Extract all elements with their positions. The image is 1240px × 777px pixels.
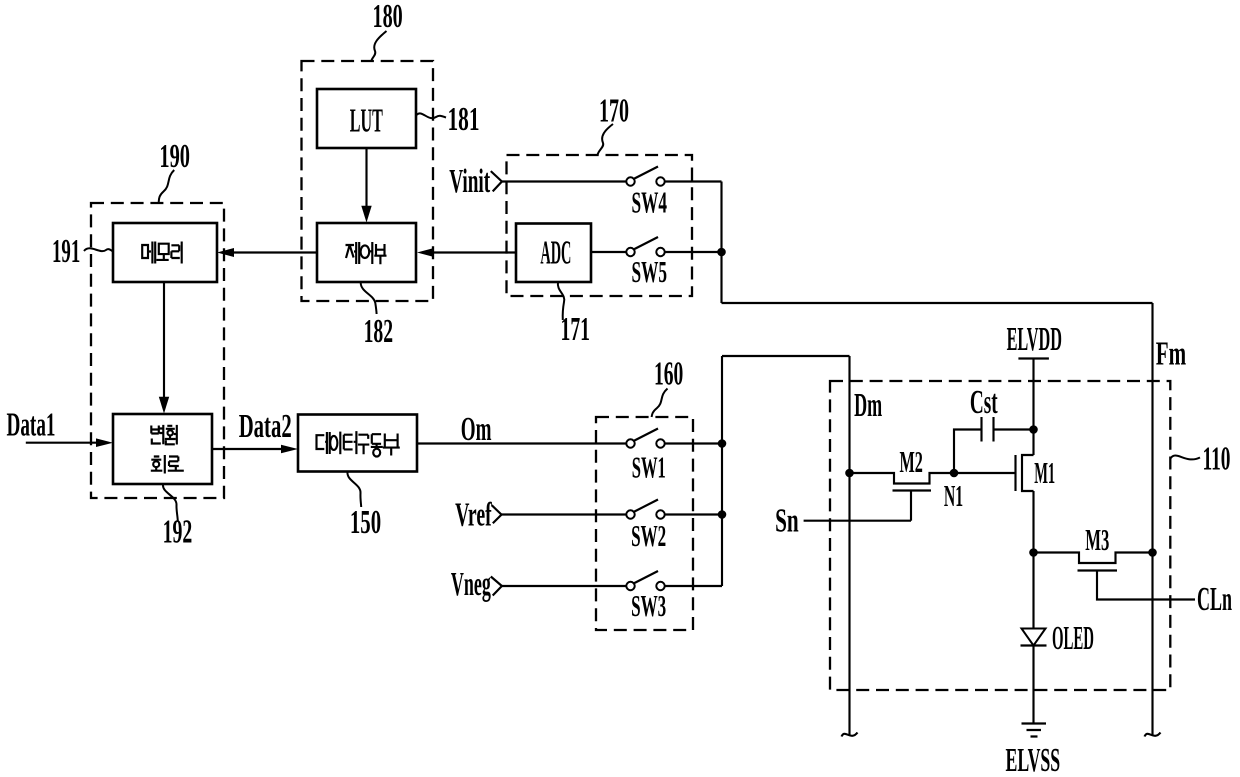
svg-text:ELVSS: ELVSS bbox=[1006, 742, 1061, 777]
box converter 변환회로 (U192) bbox=[113, 414, 212, 484]
svg-text:Data2: Data2 bbox=[239, 408, 292, 445]
block 190 dashed box bbox=[91, 203, 224, 498]
wire SW2 to bus bbox=[665, 513, 722, 515]
svg-text:M3: M3 bbox=[1085, 522, 1109, 557]
svg-text:OLED: OLED bbox=[1052, 620, 1094, 657]
svg-text:Sn: Sn bbox=[775, 503, 799, 540]
wire M2 gate to Sn bbox=[910, 491, 912, 521]
svg-text:ELVDD: ELVDD bbox=[1007, 321, 1062, 358]
node M1-M3-OLED junction dot bbox=[1029, 548, 1038, 557]
svg-text:SW4: SW4 bbox=[632, 185, 668, 220]
node SW2 junction dot bbox=[718, 510, 727, 519]
korean text 회로 bbox=[151, 455, 184, 474]
wire top horizontal run to Fm bbox=[722, 302, 1153, 304]
switch SW5 bbox=[626, 237, 664, 256]
svg-text:180: 180 bbox=[373, 0, 403, 35]
wire ADC to SW5 bbox=[591, 251, 626, 253]
transistor M3 channel bbox=[1034, 553, 1153, 564]
svg-text:190: 190 bbox=[159, 138, 190, 175]
ground symbol ELVSS bbox=[1022, 724, 1047, 737]
switch SW2 bbox=[626, 500, 664, 519]
wire SW4 to Fm riser bbox=[665, 180, 722, 182]
box controller 제어부 (U182) bbox=[317, 223, 416, 282]
svg-text:192: 192 bbox=[163, 514, 193, 551]
wire ELVDD down to Cst node bbox=[1032, 359, 1034, 456]
switch SW1 bbox=[626, 429, 664, 448]
wire Data1 input bbox=[26, 442, 97, 444]
wire OLED anode bbox=[1032, 553, 1034, 629]
svg-text:171: 171 bbox=[561, 311, 591, 348]
node N1 junction dot bbox=[950, 469, 959, 478]
node SW5 junction dot bbox=[717, 248, 726, 257]
transistor M2 channel bbox=[850, 473, 955, 484]
leader squiggle 160 bbox=[652, 389, 668, 418]
wire bus to Dm bbox=[722, 355, 850, 357]
box memory 메모리 (U191) bbox=[113, 223, 217, 282]
transistor M2 gate bar bbox=[893, 489, 932, 491]
svg-text:SW1: SW1 bbox=[632, 450, 666, 485]
svg-text:Data1: Data1 bbox=[7, 407, 56, 444]
block 180 dashed box bbox=[302, 61, 434, 301]
arrowhead into memory bbox=[217, 248, 234, 257]
wire SW5 to Fm riser bbox=[665, 251, 722, 253]
transistor M1 gate bar bbox=[1014, 455, 1016, 491]
svg-text:SW3: SW3 bbox=[631, 588, 666, 623]
arrowhead into controller from ADC bbox=[417, 248, 434, 257]
wire Om from data driver to SW1 bbox=[417, 442, 626, 444]
svg-text:Dm: Dm bbox=[854, 387, 882, 424]
leader tilde 181 bbox=[417, 113, 447, 118]
svg-text:ADC: ADC bbox=[540, 235, 571, 272]
arrowhead into converter bbox=[159, 397, 169, 414]
svg-text:Vref: Vref bbox=[455, 497, 492, 534]
svg-text:191: 191 bbox=[52, 233, 80, 270]
arrowhead Data2 into data driver bbox=[281, 445, 298, 454]
svg-text:110: 110 bbox=[1203, 440, 1231, 477]
wire Vinit to SW4 bbox=[502, 180, 626, 182]
svg-text:SW5: SW5 bbox=[632, 254, 668, 289]
svg-text:N1: N1 bbox=[944, 478, 963, 513]
node SW1 junction dot bbox=[718, 439, 727, 448]
node Cst junction dot bbox=[1029, 425, 1038, 434]
wire OLED cathode down bbox=[1032, 646, 1034, 724]
wire LUT to controller arrow bbox=[365, 148, 367, 207]
wire Vref to SW2 bbox=[502, 513, 627, 515]
wire Vneg to SW3 bbox=[502, 585, 626, 587]
break tilde Dm bottom bbox=[842, 733, 858, 737]
leader squiggle 182 bbox=[361, 283, 377, 314]
transistor M3 gate bar bbox=[1078, 569, 1118, 571]
korean text 데이터구동부 bbox=[317, 431, 400, 456]
leader tilde 191 bbox=[84, 248, 113, 251]
wire controller to memory bbox=[234, 251, 317, 253]
box LUT (U181) bbox=[317, 89, 416, 148]
svg-text:LUT: LUT bbox=[350, 103, 383, 140]
block 160 dashed box bbox=[596, 417, 693, 630]
node M3-Fm junction dot bbox=[1148, 548, 1157, 557]
wire M3 gate to CLn bbox=[1097, 571, 1195, 600]
svg-text:182: 182 bbox=[364, 313, 394, 350]
wire SW3 to bus bbox=[665, 585, 722, 587]
svg-text:181: 181 bbox=[448, 101, 480, 138]
wire Sn bbox=[804, 520, 911, 522]
wire Vinit riser down bbox=[720, 182, 722, 304]
wire memory to converter bbox=[163, 282, 165, 398]
wire ADC to controller bbox=[434, 251, 516, 253]
capacitor Cst plates bbox=[982, 417, 994, 442]
arrowhead Data1 into converter bbox=[96, 438, 113, 447]
terminal chevron Vref bbox=[492, 505, 502, 523]
leader squiggle 170 bbox=[598, 124, 614, 155]
wire SW1 to bus bbox=[665, 442, 722, 444]
box ADC (U171) bbox=[516, 224, 591, 283]
terminal chevron Vinit bbox=[491, 171, 502, 191]
wire Data2 bbox=[212, 448, 282, 450]
switch SW3 bbox=[626, 571, 664, 590]
node Dm-M2 junction dot bbox=[845, 469, 854, 478]
svg-text:M2: M2 bbox=[900, 444, 923, 479]
wire Dm vertical line bbox=[848, 356, 850, 736]
svg-text:Cst: Cst bbox=[970, 384, 998, 421]
svg-text:Vinit: Vinit bbox=[449, 163, 490, 200]
arrowhead into controller bbox=[361, 206, 371, 223]
leader squiggle 190 bbox=[159, 170, 175, 202]
svg-text:Fm: Fm bbox=[1156, 336, 1186, 373]
wire M1 source down bbox=[1032, 491, 1034, 553]
transistor M1 channel bbox=[1022, 455, 1034, 491]
leader squiggle 192 bbox=[163, 485, 178, 522]
leader squiggle 180 bbox=[372, 31, 387, 61]
wire switch bus vertical bbox=[721, 356, 723, 586]
diode OLED cathode bar bbox=[1021, 644, 1047, 646]
diode OLED triangle bbox=[1022, 629, 1046, 646]
terminal chevron Vneg bbox=[491, 577, 502, 596]
korean text 메모리 bbox=[142, 242, 182, 264]
svg-text:Vneg: Vneg bbox=[451, 566, 491, 603]
svg-text:160: 160 bbox=[654, 356, 683, 393]
wire Cst to ELVDD line bbox=[994, 428, 1034, 430]
korean text 변환 bbox=[151, 425, 177, 445]
block 170 dashed box bbox=[507, 155, 693, 296]
svg-text:M1: M1 bbox=[1034, 455, 1055, 490]
switch SW4 bbox=[626, 167, 664, 186]
wire Fm vertical line bbox=[1151, 303, 1153, 736]
break tilde Fm bottom bbox=[1145, 733, 1161, 737]
svg-text:150: 150 bbox=[350, 504, 381, 541]
wire N1 riser to Cst bbox=[954, 430, 982, 474]
korean text 제어부 bbox=[346, 242, 387, 264]
power bar ELVDD bbox=[1018, 357, 1049, 359]
leader squiggle 171 bbox=[558, 282, 564, 320]
svg-text:170: 170 bbox=[599, 93, 629, 130]
box data driver 데이터구동부 (U150) bbox=[298, 415, 417, 472]
wire N1 to M1 gate bbox=[954, 472, 1016, 474]
block 110 pixel dashed box bbox=[830, 381, 1170, 690]
leader tilde 110 bbox=[1171, 456, 1201, 460]
leader squiggle 150 bbox=[347, 472, 361, 507]
svg-text:CLn: CLn bbox=[1197, 581, 1232, 618]
svg-text:SW2: SW2 bbox=[631, 518, 666, 553]
